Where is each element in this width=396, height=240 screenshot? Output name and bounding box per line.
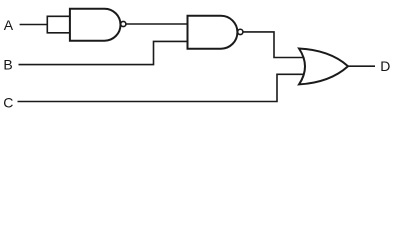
svg-text:B: B <box>3 57 12 73</box>
svg-text:A: A <box>4 17 14 33</box>
svg-text:D: D <box>380 58 390 74</box>
svg-text:C: C <box>3 95 13 111</box>
